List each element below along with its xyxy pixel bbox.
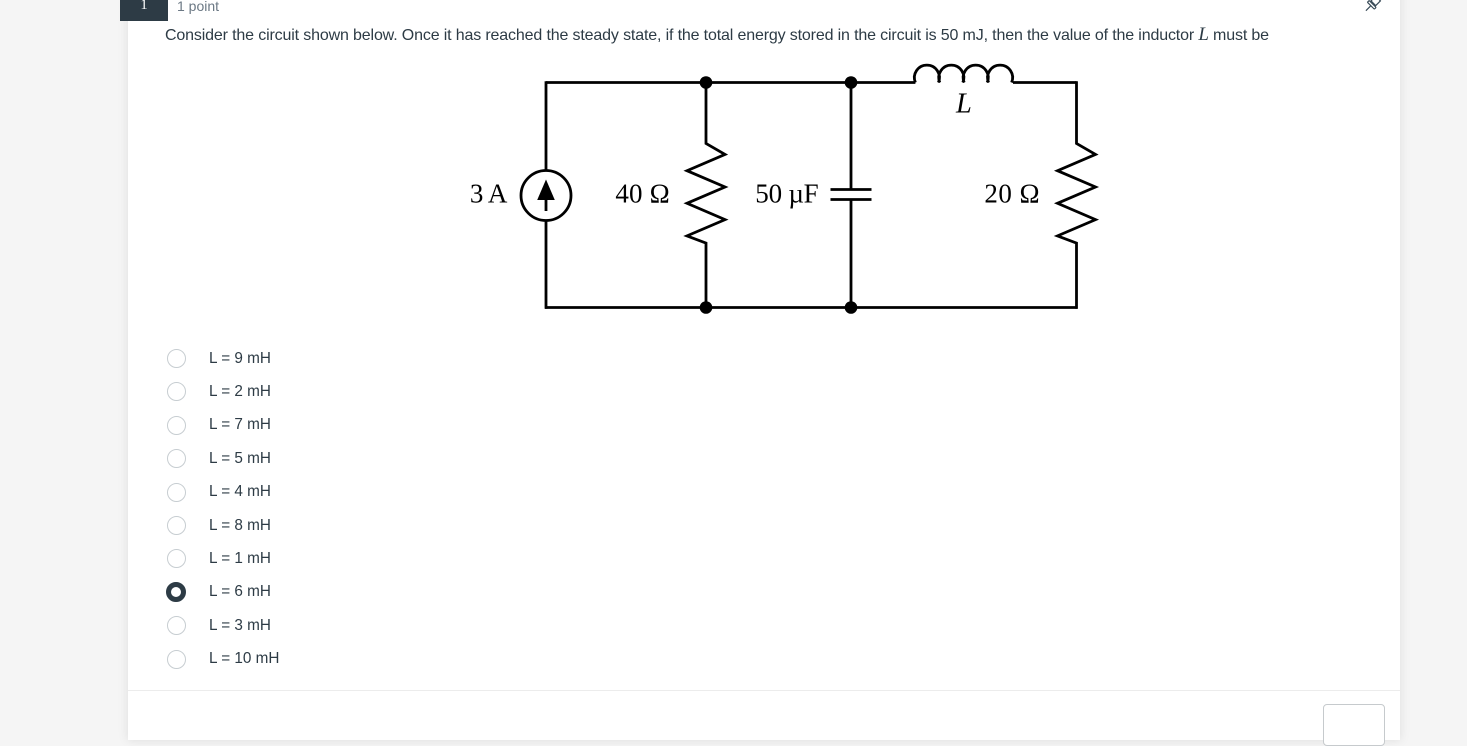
svg-text:L: L xyxy=(955,88,972,119)
svg-text:40 Ω: 40 Ω xyxy=(615,179,669,209)
svg-text:50 µF: 50 µF xyxy=(755,179,818,209)
svg-text:3 A: 3 A xyxy=(470,179,508,209)
svg-text:20 Ω: 20 Ω xyxy=(984,179,1039,209)
